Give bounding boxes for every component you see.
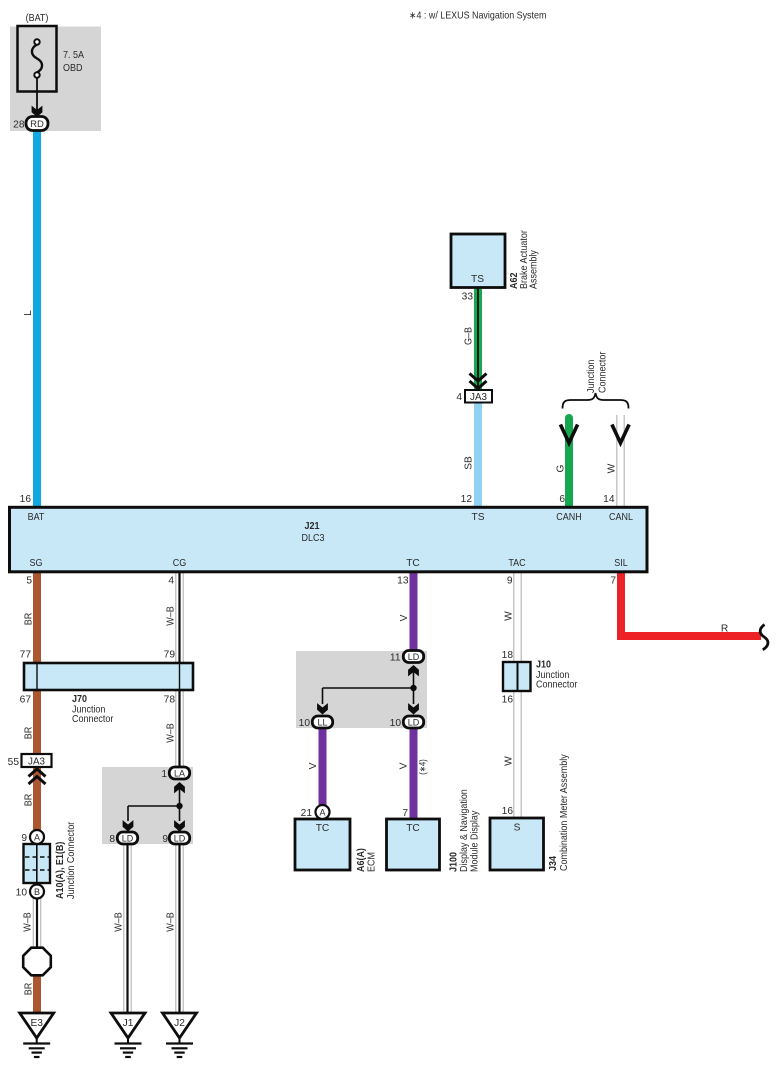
svg-text:A6(A): A6(A) [356, 848, 367, 872]
svg-text:TS: TS [471, 512, 484, 523]
svg-text:CANH: CANH [556, 512, 581, 523]
svg-text:16: 16 [20, 494, 32, 505]
svg-text:21: 21 [301, 808, 313, 819]
svg-text:8: 8 [109, 834, 115, 845]
svg-text:Connector: Connector [536, 680, 578, 691]
svg-text:G–B: G–B [464, 327, 475, 345]
svg-text:9: 9 [507, 576, 513, 587]
svg-text:CG: CG [173, 558, 187, 569]
svg-text:6: 6 [559, 494, 565, 505]
svg-text:16: 16 [502, 806, 514, 817]
svg-text:B: B [34, 887, 40, 897]
svg-text:JA3: JA3 [28, 757, 45, 768]
svg-text:(∗4): (∗4) [418, 759, 428, 775]
svg-text:RD: RD [30, 119, 44, 130]
svg-text:W: W [504, 611, 515, 621]
svg-text:W: W [607, 463, 618, 473]
svg-text:SIL: SIL [614, 558, 628, 569]
svg-text:LA: LA [174, 768, 185, 778]
svg-text:∗4 : w/ LEXUS Navigation Syste: ∗4 : w/ LEXUS Navigation System [409, 11, 546, 22]
svg-text:10: 10 [390, 718, 402, 729]
svg-text:V: V [399, 614, 410, 621]
svg-text:79: 79 [164, 650, 176, 661]
svg-text:W: W [504, 756, 515, 766]
svg-text:J2: J2 [174, 1018, 185, 1029]
svg-text:Combination Meter Assembly: Combination Meter Assembly [559, 754, 570, 871]
svg-text:CANL: CANL [609, 512, 633, 523]
svg-text:4: 4 [168, 576, 174, 587]
svg-text:A: A [34, 833, 40, 843]
svg-text:ECM: ECM [367, 852, 378, 872]
svg-text:18: 18 [502, 650, 514, 661]
svg-text:BR: BR [24, 983, 35, 996]
svg-text:SB: SB [464, 456, 475, 470]
svg-text:7: 7 [402, 808, 408, 819]
svg-text:BR: BR [24, 613, 35, 626]
svg-text:Junction Connector: Junction Connector [66, 821, 77, 899]
svg-text:J10: J10 [536, 660, 551, 671]
svg-text:V: V [399, 762, 410, 769]
svg-text:DLC3: DLC3 [302, 533, 325, 544]
svg-text:LD: LD [122, 833, 134, 843]
svg-text:E3: E3 [30, 1018, 43, 1029]
svg-text:J21: J21 [305, 521, 320, 532]
svg-text:12: 12 [461, 494, 473, 505]
svg-text:Module Display: Module Display [470, 810, 481, 872]
svg-text:BAT: BAT [28, 512, 45, 523]
svg-text:TC: TC [406, 823, 420, 834]
svg-text:OBD: OBD [63, 63, 83, 74]
svg-text:G: G [556, 464, 567, 472]
svg-text:LL: LL [317, 717, 327, 727]
svg-text:16: 16 [502, 695, 514, 706]
svg-text:Assembly: Assembly [529, 249, 540, 289]
svg-text:LD: LD [174, 833, 186, 843]
svg-text:13: 13 [397, 576, 409, 587]
svg-text:JA3: JA3 [470, 392, 487, 403]
svg-text:14: 14 [603, 494, 615, 505]
svg-text:S: S [514, 823, 521, 834]
svg-text:7: 7 [610, 576, 616, 587]
svg-text:28: 28 [13, 120, 25, 131]
svg-text:A10(A), E1(B): A10(A), E1(B) [55, 842, 66, 899]
svg-text:W–B: W–B [114, 912, 125, 932]
svg-text:Junction: Junction [586, 360, 597, 393]
svg-text:BR: BR [24, 727, 35, 740]
svg-text:LD: LD [408, 717, 420, 727]
svg-text:J70: J70 [72, 694, 87, 705]
svg-text:SG: SG [30, 558, 43, 569]
svg-text:9: 9 [162, 834, 168, 845]
svg-text:9: 9 [21, 833, 27, 844]
svg-text:55: 55 [8, 757, 20, 768]
svg-text:7. 5A: 7. 5A [63, 50, 84, 61]
svg-text:Display & Navigation: Display & Navigation [459, 789, 470, 872]
svg-text:BR: BR [24, 794, 35, 807]
svg-text:W–B: W–B [166, 606, 177, 626]
svg-text:5: 5 [26, 576, 32, 587]
svg-text:Connector: Connector [598, 351, 609, 393]
svg-text:A: A [319, 808, 325, 818]
svg-text:77: 77 [20, 650, 32, 661]
svg-text:V: V [308, 762, 319, 769]
svg-text:W–B: W–B [166, 723, 177, 743]
svg-text:TAC: TAC [508, 558, 525, 569]
svg-text:67: 67 [20, 695, 32, 706]
svg-text:Connector: Connector [72, 714, 114, 725]
svg-text:10: 10 [299, 718, 311, 729]
svg-text:W–B: W–B [166, 912, 177, 932]
svg-text:TS: TS [471, 274, 484, 285]
svg-text:R: R [721, 624, 728, 635]
svg-text:TC: TC [406, 558, 420, 569]
svg-text:J34: J34 [548, 856, 559, 871]
svg-text:TC: TC [316, 823, 330, 834]
svg-text:10: 10 [16, 888, 28, 899]
svg-text:J100: J100 [449, 852, 460, 872]
svg-text:1: 1 [161, 769, 167, 780]
svg-text:(BAT): (BAT) [26, 13, 49, 24]
svg-text:4: 4 [456, 392, 462, 403]
svg-text:11: 11 [390, 653, 401, 664]
svg-text:L: L [23, 310, 34, 316]
svg-text:LD: LD [408, 652, 420, 662]
svg-text:W–B: W–B [23, 912, 34, 932]
svg-text:33: 33 [462, 292, 474, 303]
svg-text:78: 78 [164, 695, 176, 706]
svg-text:J1: J1 [123, 1018, 134, 1029]
